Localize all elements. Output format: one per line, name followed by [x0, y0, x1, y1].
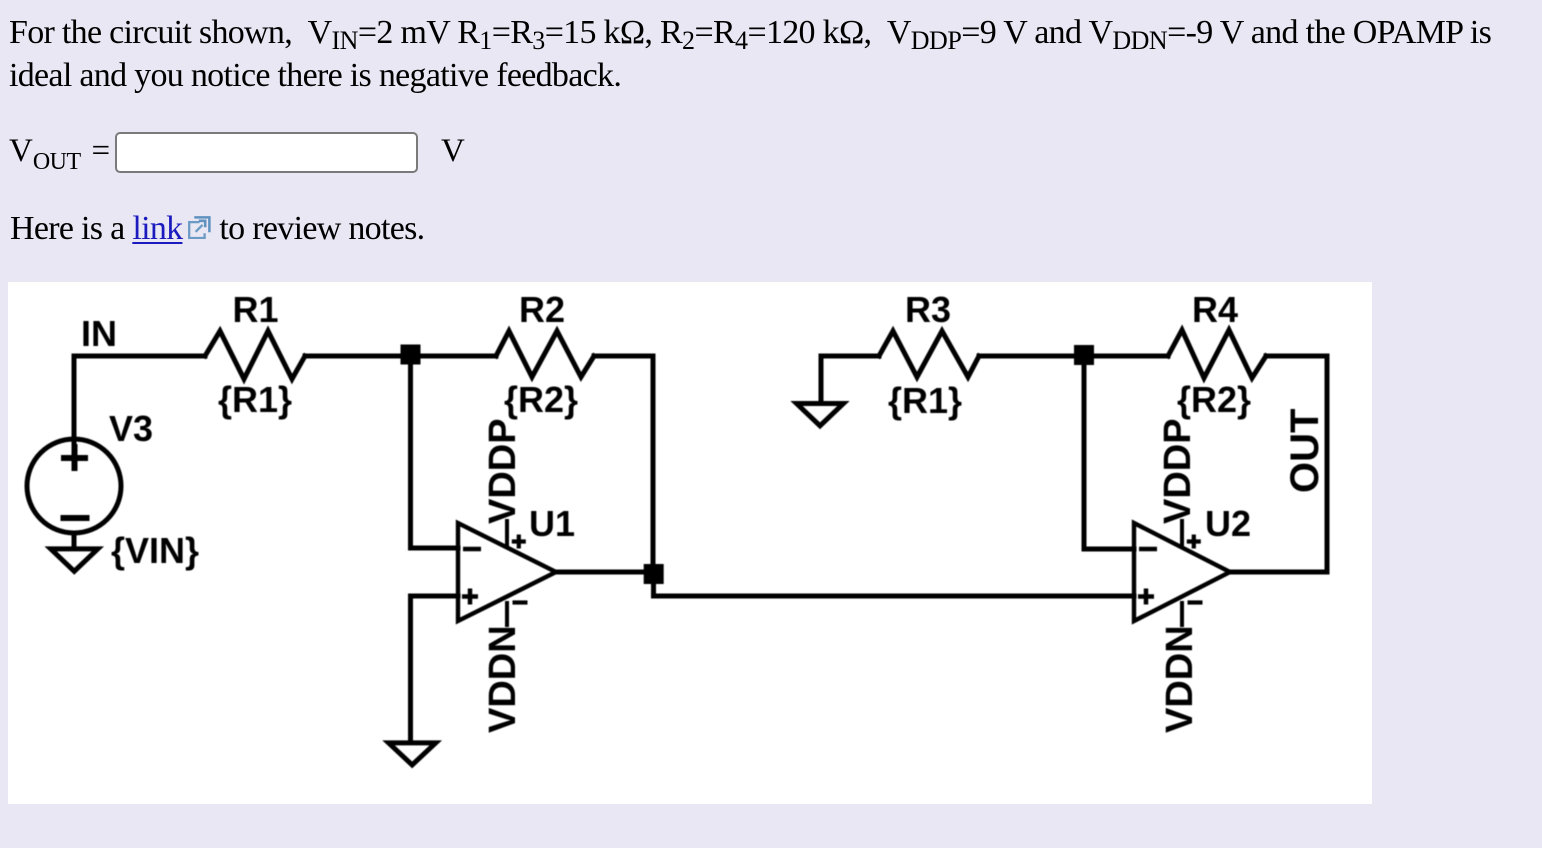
resistor R1: [205, 331, 305, 379]
svg-text:R2: R2: [519, 289, 565, 330]
svg-text:{R2}: {R2}: [504, 379, 578, 420]
svg-text:VDDN: VDDN: [1159, 625, 1201, 733]
svg-text:R3: R3: [905, 289, 951, 330]
op-amp U2: [1134, 523, 1230, 621]
svg-text:R1: R1: [233, 289, 279, 330]
junction node R3/R4: [1074, 345, 1094, 365]
wire R4 corner down to U2 output: [1230, 356, 1327, 572]
svg-text:OUT: OUT: [1283, 409, 1327, 493]
U1 VDDP pin: [505, 521, 509, 544]
wire R3 to node: [979, 354, 1084, 359]
svg-text:R4: R4: [1192, 289, 1238, 330]
svg-text:U2: U2: [1205, 503, 1251, 544]
V3 minus sign: [61, 515, 90, 521]
resistor R4: [1168, 330, 1266, 378]
wire U1 output: [556, 570, 651, 575]
ground near R3: [797, 404, 844, 426]
wire IN to R1: [74, 354, 205, 359]
wire U1 noninverting input to ground: [411, 596, 459, 741]
U1 VDDN pin: [505, 603, 509, 625]
U1 VDDP small plus: [512, 535, 526, 549]
wire ground corner to R3: [821, 354, 879, 359]
V3 plus sign: [61, 444, 88, 471]
svg-text:{R1}: {R1}: [218, 379, 292, 420]
U2 VDDP small plus: [1187, 535, 1201, 549]
U1 inverting minus sign: [463, 547, 481, 552]
resistor R2: [496, 331, 594, 377]
wire node down to U2 inverting input: [1084, 356, 1134, 549]
circuit schematic image: [8, 282, 1372, 804]
U2 VDDN small minus: [1188, 600, 1203, 604]
Vout label: [9, 133, 81, 170]
resistor R3: [879, 331, 979, 377]
svg-text:{R2}: {R2}: [1177, 379, 1251, 420]
problem statement line 2: [9, 57, 621, 95]
svg-text:IN: IN: [81, 313, 117, 354]
wire out node jog to long wire: [654, 574, 1135, 596]
V unit: [441, 133, 465, 170]
external link icon: [188, 216, 211, 239]
voltage source V3: [27, 439, 121, 533]
junction node U1 out: [644, 564, 664, 584]
link line: [10, 210, 424, 248]
wire node down to U1 inverting input: [411, 356, 459, 548]
U2 inverting minus sign: [1139, 547, 1157, 552]
svg-text:V3: V3: [109, 408, 153, 449]
U2 VDDP pin: [1180, 521, 1184, 544]
svg-text:{R1}: {R1}: [888, 380, 962, 421]
svg-text:{VIN}: {VIN}: [111, 530, 199, 571]
wire node to R2: [410, 354, 496, 359]
ground below V3: [51, 549, 98, 571]
U2 VDDN pin: [1180, 603, 1184, 625]
junction node R1/R2: [401, 345, 421, 365]
equals sign: [92, 133, 111, 170]
wire node to R4: [1084, 354, 1168, 359]
answer input box: [115, 132, 418, 173]
U2 noninverting plus sign: [1138, 589, 1154, 605]
svg-text:U1: U1: [529, 503, 575, 544]
wire R1 to node: [305, 354, 410, 359]
wire R2 to corner down to out node: [594, 356, 653, 563]
svg-text:VDDP: VDDP: [482, 418, 524, 524]
V3 bottom stem: [72, 533, 77, 548]
U1 VDDN small minus: [513, 600, 528, 604]
U1 noninverting plus sign: [462, 589, 478, 605]
op-amp U1: [458, 523, 556, 621]
problem statement line 1: [9, 14, 1491, 52]
svg-text:VDDP: VDDP: [1157, 418, 1199, 524]
svg-text:VDDN: VDDN: [482, 625, 524, 733]
ground below U1: [389, 743, 436, 765]
wire IN vertical: [72, 356, 77, 442]
ground stem R3 left: [819, 356, 824, 401]
